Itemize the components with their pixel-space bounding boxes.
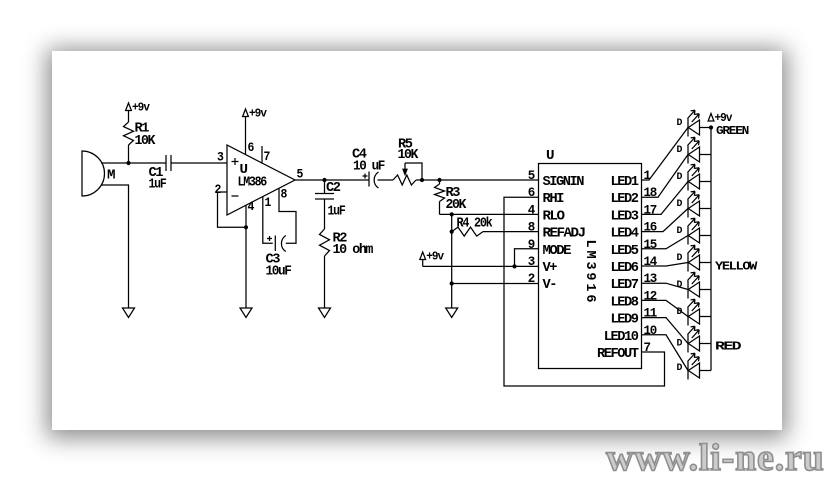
wire pin to LED D4 [642,209,689,232]
svg-text:16: 16 [644,221,657,235]
wire pin to LED D9 [642,318,689,344]
pin 9 MODE label [528,238,571,259]
capacitor C4 10 uF [352,147,393,189]
svg-text:11: 11 [644,307,657,321]
svg-text:4: 4 [528,203,536,217]
svg-text:2: 2 [528,272,535,286]
op-amp U1 LM386 triangle [227,145,295,215]
pin 10 LED10 label [604,324,657,345]
pin 17 LED3 label [611,203,657,224]
svg-text:LED1: LED1 [611,174,639,190]
svg-text:D: D [677,306,683,318]
svg-text:10K: 10K [135,133,156,149]
svg-text:14: 14 [644,255,658,269]
power +9v supply arrow for R1 [126,102,150,123]
svg-text:SIGNIN: SIGNIN [543,174,585,190]
resistor R1 10K [124,121,156,150]
svg-text:10 uF: 10 uF [353,159,385,175]
svg-text:10 ohm: 10 ohm [333,242,374,258]
svg-text:LED9: LED9 [611,312,639,328]
LED D10 [677,353,712,379]
svg-text:V+: V+ [543,260,558,276]
power +9v supply arrow for LED rail [708,112,732,125]
wire +9v LED rail [710,128,712,371]
svg-text:7: 7 [644,341,651,355]
wire C1 to op-amp pin 3 [171,162,227,164]
pin 14 LED6 label [611,255,658,276]
node YELLOW label [715,260,758,274]
svg-text:MODE: MODE [543,243,572,259]
svg-text:LED2: LED2 [611,191,639,207]
svg-text:D: D [677,362,683,374]
wire RLO net [440,213,539,215]
ground (R2) [319,308,331,318]
svg-text:M: M [107,168,115,184]
svg-text:C2: C2 [326,180,341,196]
wire R5 to LM3916 SIGNIN [416,179,539,181]
wire mic to C1 (input node) [101,162,166,164]
svg-text:13: 13 [644,272,657,286]
watermark www.li-ne.ru [606,436,834,480]
pin 2 label [215,183,221,197]
resistor R5 10K (trimmer) [393,137,422,186]
svg-text:GREEN: GREEN [716,124,749,138]
LED D3 [677,164,712,190]
wire pin to LED D2 [642,155,689,198]
node RED label [715,340,741,354]
power +9v supply arrow for V+ [420,251,444,267]
svg-text:D: D [677,338,683,350]
page sheet [52,51,782,430]
pin 18 LED2 label [611,186,657,207]
svg-text:1: 1 [644,169,651,183]
capacitor C2 1uF [315,180,345,229]
pin 6 RHI label [528,186,564,207]
ground (LM3916) [446,308,458,318]
pin 11 LED9 label [611,307,657,328]
LED D6 [677,245,712,271]
svg-text:LED5: LED5 [611,243,639,259]
svg-text:LED8: LED8 [611,294,639,310]
svg-text:+9v: +9v [249,108,267,121]
svg-text:12: 12 [644,289,657,303]
node GREEN label [716,124,749,138]
svg-text:REFADJ: REFADJ [543,226,585,242]
svg-text:RLO: RLO [543,208,565,224]
svg-text:17: 17 [644,203,657,217]
svg-text:8: 8 [281,188,287,202]
capacitor C3 10uF [266,236,292,280]
wire MODE to V+ [515,249,539,267]
svg-text:YELLOW: YELLOW [715,260,758,274]
wire pin to LED D3 [642,182,689,215]
svg-text:3: 3 [528,255,535,269]
svg-text:D: D [677,279,683,291]
svg-text:D: D [677,117,683,129]
svg-text:6: 6 [528,186,535,200]
wire V+ net [423,265,539,267]
ground (mic) [123,308,135,318]
pin 8 wire to C3 [279,188,296,244]
svg-text:U: U [546,148,554,164]
svg-text:D: D [677,225,683,237]
svg-text:LED10: LED10 [604,329,639,345]
svg-text:10: 10 [644,324,657,338]
wire pin to LED D6 [642,263,689,267]
svg-text:D: D [677,171,683,183]
svg-text:8: 8 [528,221,535,235]
svg-text:1uF: 1uF [328,204,346,220]
pin 1 wire to C3 [263,196,273,243]
svg-text:9: 9 [528,238,535,252]
capacitor C1 1uF [149,155,172,193]
LED D1 [677,110,712,136]
resistor R4 20k [452,216,539,237]
pin 7 REFOUT label [597,341,651,362]
wire mic lower terminal to ground [101,185,129,308]
wire ground line (RLO/R4/V-) [451,214,453,308]
wire pin to LED D10 [642,335,689,371]
wire pin 2 feedback to ground net [218,192,247,227]
svg-text:7: 7 [264,150,270,164]
svg-text:LED3: LED3 [611,208,639,224]
svg-text:+9v: +9v [426,251,444,264]
svg-text:D: D [677,252,683,264]
svg-text:V-: V- [543,277,557,293]
junction node V- tap [450,281,454,285]
resistor R2 10 ohm [320,229,374,308]
svg-text:LED4: LED4 [611,226,639,242]
LED D5 [677,218,712,244]
svg-text:10uF: 10uF [266,264,292,280]
junction node output/C2 [322,178,326,182]
LED D7 [677,272,712,298]
svg-text:D: D [677,198,683,210]
IC U LM3916 [539,148,642,369]
svg-text:LM3916: LM3916 [582,240,597,303]
wire pin to LED D1 [642,128,689,181]
wire pin to LED D7 [642,283,689,289]
svg-text:5: 5 [528,169,535,183]
svg-text:1: 1 [265,196,271,210]
pin 2 V- label [528,272,556,293]
svg-text:15: 15 [644,238,657,252]
wire pin to LED D8 [642,300,689,316]
pin 8 REFADJ label [528,221,585,242]
svg-text:10K: 10K [398,147,419,163]
svg-text:20K: 20K [446,197,467,213]
junction node mic/R1/C1 [126,161,130,165]
microphone M [82,151,115,196]
pin 3 label [217,151,223,165]
pin 13 LED7 label [611,272,657,293]
svg-text:R4 20k: R4 20k [457,216,493,232]
svg-text:18: 18 [644,186,657,200]
junction node rail top [709,125,713,129]
svg-text:+9v: +9v [132,102,150,115]
svg-text:RHI: RHI [543,191,565,207]
svg-text:LED6: LED6 [611,260,639,276]
svg-text:D: D [677,144,683,156]
junction node R3 top [437,178,441,182]
wire RHI to REFOUT loop [504,197,665,386]
pin 3 V+ label [528,255,557,276]
wire pin to LED D5 [642,236,689,249]
junction node R4 left [450,230,454,234]
resistor R3 20K [435,180,467,214]
pin 16 LED4 label [611,221,657,242]
pin 4 RLO label [528,203,565,224]
LED D9 [677,326,712,352]
svg-text:4: 4 [248,200,255,214]
IC part number LM3916 (vertical) [582,240,597,303]
svg-text:3: 3 [217,151,223,165]
pin 6 label [248,141,254,155]
pin 5 SIGNIN label [528,169,584,190]
junction node pin4/pin2 [244,225,248,229]
pin 12 LED8 label [611,289,657,310]
pin 5 output wire [295,168,369,182]
pin 15 LED5 label [611,238,657,259]
svg-text:1uF: 1uF [149,177,167,193]
ground (op-amp) [240,308,252,318]
LED D4 [677,191,712,217]
power +9v supply arrow for op-amp pin 6 [243,108,267,155]
svg-text:5: 5 [297,168,303,182]
junction node RLO/ground line [450,212,454,216]
junction node MODE/V+ [512,264,516,268]
svg-text:LM386: LM386 [238,175,267,191]
LED D8 [677,299,712,325]
pin 4 wire to ground [246,200,255,308]
wire V- net [452,283,539,285]
junction node R5 wiper [420,178,424,182]
svg-text:6: 6 [248,141,254,155]
LED D2 [677,137,712,163]
svg-text:RED: RED [715,340,741,354]
wire R1 bottom to input node [128,145,130,163]
pin 7 stub [262,146,270,164]
pin 1 LED1 label [611,169,651,190]
svg-text:REFOUT: REFOUT [597,346,639,362]
svg-text:LED7: LED7 [611,277,639,293]
